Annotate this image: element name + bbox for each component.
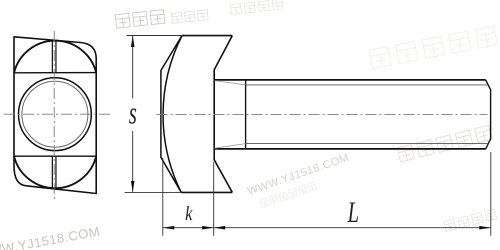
end chamfer [486,80,491,149]
horizontal centerline [4,113,110,115]
vertical centerline [53,31,55,200]
watermark top-right [369,26,497,69]
k dimension line [163,227,214,229]
k extension right [213,162,215,236]
upper dome arc [14,41,96,73]
L arrow right [479,226,491,230]
k arrow right [202,226,214,230]
thread end line [245,80,247,149]
head curved face arc [163,36,182,193]
head right side notches [214,36,232,193]
k arrow left [163,226,175,230]
watermark right-middle [397,125,492,162]
watermark bottom-right [444,209,497,231]
svg-text:k: k [185,203,193,225]
head top edge [182,35,232,37]
head bottom edge [181,191,232,193]
shank bottom edge [214,148,486,150]
inner circle (thin) [22,81,88,147]
svg-text:s: s [129,95,137,131]
s extension bottom [125,191,182,193]
shank centerline [157,113,488,115]
head left silhouette [161,36,182,193]
shank top edge [214,79,486,81]
outer circle [19,78,92,151]
thread minor lines [246,85,488,144]
s extension top [127,35,183,37]
s dimension line [132,36,134,193]
strip top lines [52,40,56,73]
upper flat line [14,72,96,74]
thread runout [215,81,246,149]
lower flat line [14,155,96,157]
L dimension line [214,227,491,229]
watermark top-center [115,10,165,28]
strip bottom lines [52,156,56,189]
head outline (square with rounded opposite corners) [14,37,96,194]
L arrow left [214,226,226,230]
L extension right [490,152,492,236]
svg-text:L: L [347,195,359,229]
s arrow bottom [131,181,135,193]
k extension left [162,158,164,236]
s arrow top [131,36,135,48]
lower dome arc [14,156,96,188]
